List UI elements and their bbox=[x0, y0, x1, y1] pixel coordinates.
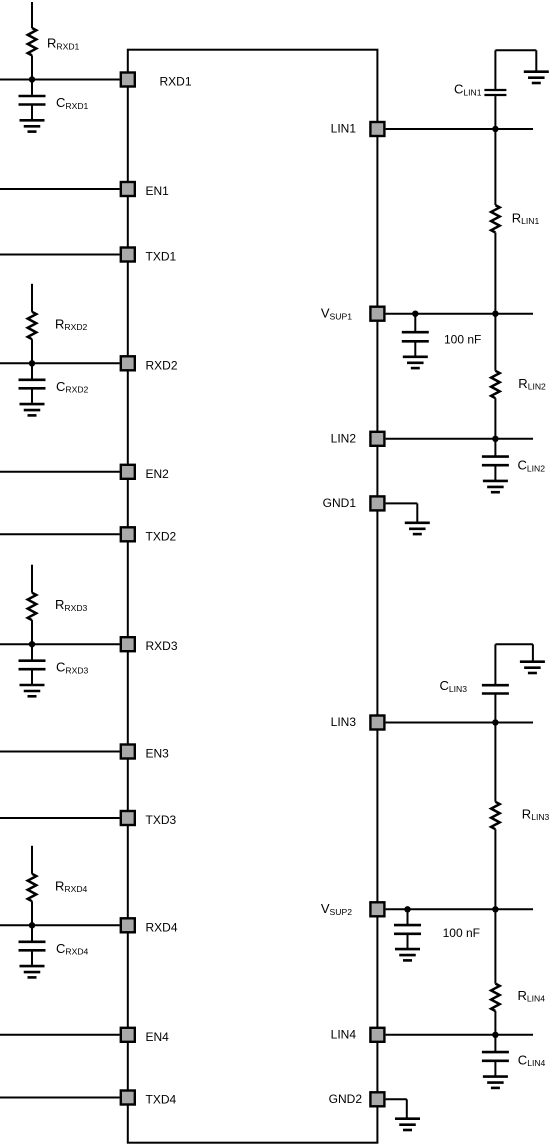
node junction VSUP2 bypass bbox=[404, 906, 410, 912]
wire RXD3 horizontal bbox=[0, 643, 120, 645]
svg-text:EN4: EN4 bbox=[146, 1030, 170, 1044]
node junction LIN1 bbox=[492, 126, 498, 132]
svg-text:TXD4: TXD4 bbox=[146, 1093, 177, 1107]
wire R_LIN2 to LIN2 bbox=[494, 398, 496, 439]
wire EN3 horizontal bbox=[0, 751, 120, 753]
node junction RXD2 bbox=[29, 360, 35, 366]
wire TXD4 horizontal bbox=[0, 1097, 120, 1099]
wire TXD2 horizontal bbox=[0, 533, 120, 535]
pin GND2 bbox=[370, 1092, 384, 1106]
wire GND1 horizontal bbox=[386, 502, 418, 504]
ground at GND2 bbox=[395, 1117, 420, 1120]
capacitor C_RXD1 bbox=[31, 80, 33, 96]
wire LIN1 to R_LIN1 bbox=[494, 129, 496, 205]
wire resistor to node RXD2 bbox=[31, 339, 33, 363]
svg-text:EN1: EN1 bbox=[146, 184, 170, 198]
wire C_LIN3 to ground bbox=[495, 643, 533, 645]
pin GND1 bbox=[370, 496, 384, 510]
wire EN4 horizontal bbox=[0, 1034, 120, 1036]
svg-text:LIN3: LIN3 bbox=[331, 715, 357, 729]
capacitor C_LIN1 bbox=[494, 96, 496, 129]
wire R_LIN1 to VSUP1 bbox=[494, 233, 496, 314]
wire stub above resistor R_RXD1 bbox=[31, 2, 33, 28]
ground at GND1 bbox=[405, 521, 430, 524]
ground at VSUP2 bypass bbox=[395, 948, 420, 951]
svg-text:RXD2: RXD2 bbox=[146, 358, 178, 372]
pin LIN4 bbox=[370, 1028, 384, 1042]
capacitor C_RXD3 bbox=[31, 644, 33, 660]
svg-text:LIN4: LIN4 bbox=[331, 1027, 357, 1041]
pin TXD3 bbox=[121, 811, 135, 825]
resistor R_RXD3 bbox=[28, 593, 37, 620]
node junction LIN4 bbox=[492, 1032, 498, 1038]
wire GND2 to ground bbox=[406, 1099, 408, 1118]
wire RXD2 horizontal bbox=[0, 362, 120, 364]
wire VSUP2 horizontal bbox=[386, 908, 533, 910]
capacitor 100 nF (VSUP1) bbox=[414, 314, 416, 332]
svg-text:GND2: GND2 bbox=[329, 1092, 363, 1106]
pin RXD3 bbox=[121, 637, 135, 651]
wire EN1 horizontal bbox=[0, 188, 120, 190]
wire resistor to node RXD1 bbox=[31, 55, 33, 79]
pin EN3 bbox=[121, 745, 135, 759]
svg-text:RXD1: RXD1 bbox=[160, 75, 192, 89]
wire LIN2 horizontal bbox=[386, 438, 533, 440]
wire stub above resistor R_RXD3 bbox=[31, 565, 33, 593]
pin RXD1 bbox=[121, 73, 135, 87]
svg-text:100 nF: 100 nF bbox=[444, 333, 481, 347]
wire stub above resistor R_RXD2 bbox=[31, 284, 33, 312]
wire VSUP1 to R_LIN2 bbox=[494, 314, 496, 371]
wire RXD1 horizontal bbox=[0, 79, 120, 81]
svg-text:TXD2: TXD2 bbox=[146, 529, 177, 543]
pin LIN2 bbox=[370, 432, 384, 446]
wire R_LIN3 to VSUP2 bbox=[494, 829, 496, 909]
svg-text:TXD3: TXD3 bbox=[146, 813, 177, 827]
wire LIN3 horizontal bbox=[386, 722, 533, 724]
node junction RXD4 bbox=[29, 922, 35, 928]
node junction RXD1 bbox=[29, 76, 35, 82]
node junction VSUP1 bypass bbox=[412, 311, 418, 317]
ground at C_LIN1 bbox=[524, 70, 549, 73]
node junction VSUP1 / R_LIN chain bbox=[492, 311, 498, 317]
svg-text:TXD1: TXD1 bbox=[146, 250, 177, 264]
capacitor C_LIN2 bbox=[494, 439, 496, 456]
ground at C_LIN3 bbox=[520, 660, 545, 663]
svg-text:LIN1: LIN1 bbox=[331, 122, 357, 136]
pin VSUP1 bbox=[370, 307, 384, 321]
wire VSUP2 to R_LIN4 bbox=[494, 909, 496, 983]
wire EN2 horizontal bbox=[0, 471, 120, 473]
node junction RXD3 bbox=[29, 641, 35, 647]
wire VSUP1 horizontal bbox=[386, 313, 533, 315]
IC U1 body outline bbox=[128, 50, 378, 1143]
svg-text:LIN2: LIN2 bbox=[331, 431, 357, 445]
capacitor C_LIN4 bbox=[494, 1035, 496, 1051]
node junction LIN3 bbox=[492, 719, 498, 725]
svg-text:EN2: EN2 bbox=[146, 467, 170, 481]
svg-text:RXD4: RXD4 bbox=[146, 920, 178, 934]
pin TXD2 bbox=[121, 527, 135, 541]
pin TXD4 bbox=[121, 1091, 135, 1105]
resistor R_LIN3 bbox=[491, 802, 500, 829]
wire resistor to node RXD4 bbox=[31, 901, 33, 925]
pin TXD1 bbox=[121, 248, 135, 262]
capacitor C_LIN3 bbox=[494, 695, 496, 723]
capacitor C_RXD4 bbox=[31, 925, 33, 941]
capacitor 100 nF (VSUP2) bbox=[407, 909, 409, 924]
wire GND1 to ground bbox=[416, 503, 418, 522]
svg-text:100 nF: 100 nF bbox=[443, 926, 480, 940]
wire stub above resistor R_RXD4 bbox=[31, 846, 33, 874]
ground at VSUP1 bypass bbox=[403, 355, 428, 358]
resistor R_RXD4 bbox=[28, 874, 37, 901]
resistor R_LIN1 bbox=[491, 205, 500, 232]
wire C_LIN1 to ground bbox=[495, 49, 536, 51]
svg-text:GND1: GND1 bbox=[323, 496, 357, 510]
capacitor C_RXD2 bbox=[31, 363, 33, 379]
resistor R_LIN2 bbox=[491, 371, 500, 398]
node junction LIN2 bbox=[492, 436, 498, 442]
pin LIN1 bbox=[370, 122, 384, 136]
wire TXD3 horizontal bbox=[0, 817, 120, 819]
pin EN1 bbox=[121, 182, 135, 196]
pin LIN3 bbox=[370, 716, 384, 730]
pin EN4 bbox=[121, 1028, 135, 1042]
resistor R_RXD2 bbox=[28, 312, 37, 339]
pin RXD4 bbox=[121, 918, 135, 932]
pin RXD2 bbox=[121, 356, 135, 370]
wire RXD4 horizontal bbox=[0, 924, 120, 926]
wire LIN4 horizontal bbox=[386, 1034, 533, 1036]
pin VSUP2 bbox=[370, 902, 384, 916]
wire GND2 horizontal bbox=[386, 1098, 407, 1100]
resistor R_RXD1 bbox=[28, 28, 37, 55]
resistor R_LIN4 bbox=[491, 984, 500, 1011]
svg-text:RXD3: RXD3 bbox=[146, 639, 178, 653]
wire LIN3 to R_LIN3 bbox=[494, 723, 496, 802]
pin EN2 bbox=[121, 465, 135, 479]
wire resistor to node RXD3 bbox=[31, 620, 33, 644]
node junction VSUP2 / R_LIN chain bbox=[492, 906, 498, 912]
wire R_LIN4 to LIN4 bbox=[494, 1011, 496, 1035]
svg-text:EN3: EN3 bbox=[146, 747, 170, 761]
wire TXD1 horizontal bbox=[0, 254, 120, 256]
wire LIN1 horizontal bbox=[386, 128, 533, 130]
